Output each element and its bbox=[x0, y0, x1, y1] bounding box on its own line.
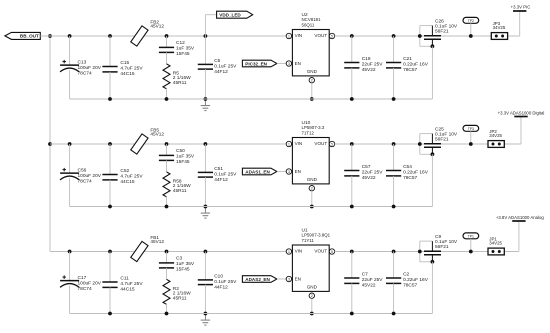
junction row1 C26 wire tap bbox=[418, 34, 422, 38]
resistor R2 bbox=[163, 279, 170, 313]
capacitor C18 bbox=[344, 36, 359, 99]
C13 value label bbox=[78, 60, 102, 77]
wire row2 ground rail bbox=[70, 206, 433, 208]
svg-text:4.7uF 25V: 4.7uF 25V bbox=[120, 65, 143, 71]
svg-text:C17: C17 bbox=[78, 275, 87, 281]
svg-text:VDD_LED: VDD_LED bbox=[219, 13, 241, 18]
junction rail C21 bbox=[392, 97, 396, 101]
U1 reference label bbox=[302, 228, 331, 243]
svg-text:C54: C54 bbox=[403, 164, 412, 170]
svg-text:45V22: 45V22 bbox=[362, 175, 376, 181]
junction rail C2 bbox=[392, 312, 396, 316]
power symbol +3.3V ADAS1000 Digital bbox=[514, 117, 527, 145]
resistor R58 bbox=[163, 172, 170, 207]
svg-text:C18: C18 bbox=[362, 56, 371, 62]
svg-text:1: 1 bbox=[288, 142, 290, 146]
svg-text:TP1: TP1 bbox=[468, 234, 474, 238]
ferrite bead FB2 bbox=[131, 26, 148, 46]
C5 value label bbox=[214, 58, 237, 75]
wire BB_OUT feed vertical bbox=[49, 36, 51, 252]
C57 value label bbox=[362, 164, 384, 181]
wire ADAS1_EN to EN pin bbox=[277, 171, 286, 173]
svg-text:TP3: TP3 bbox=[468, 127, 474, 131]
test point TP1 bbox=[463, 233, 479, 252]
capacitor C56 bbox=[60, 144, 79, 207]
capacitor C51 bbox=[198, 144, 213, 207]
U1 pin 1 VIN bbox=[286, 249, 291, 254]
svg-text:C12: C12 bbox=[176, 40, 185, 46]
svg-text:C50: C50 bbox=[176, 148, 185, 154]
U10 pin 3 EN bbox=[286, 169, 291, 174]
svg-text:TP2: TP2 bbox=[468, 19, 474, 23]
C54 value label bbox=[403, 164, 429, 181]
svg-text:1uF 35V: 1uF 35V bbox=[176, 153, 195, 159]
R2 value label bbox=[173, 286, 191, 302]
svg-text:100uF 20V: 100uF 20V bbox=[78, 281, 102, 287]
svg-text:15F45: 15F45 bbox=[176, 51, 190, 57]
wire row1 output net bbox=[335, 35, 520, 37]
svg-text:0.1uF 25V: 0.1uF 25V bbox=[214, 63, 237, 69]
svg-text:56F21: 56F21 bbox=[435, 29, 449, 35]
C7 value label bbox=[362, 272, 384, 289]
C52 value label bbox=[120, 168, 143, 185]
svg-text:45R11: 45R11 bbox=[173, 80, 187, 86]
net flag ADAS2_EN bbox=[242, 276, 277, 283]
svg-text:ADAS1_EN: ADAS1_EN bbox=[245, 169, 270, 174]
svg-text:0.1uF 25V: 0.1uF 25V bbox=[214, 171, 237, 177]
svg-text:VOUT: VOUT bbox=[314, 249, 327, 254]
junction row2 C54 tap bbox=[392, 142, 396, 146]
svg-text:PIC32_EN: PIC32_EN bbox=[245, 61, 267, 66]
svg-text:45V12: 45V12 bbox=[150, 24, 164, 29]
regulator U1 body bbox=[292, 245, 329, 291]
junction U10 GND rail bbox=[310, 205, 314, 209]
svg-text:1uF 35V: 1uF 35V bbox=[176, 45, 195, 51]
capacitor C13 bbox=[60, 36, 79, 99]
FB2 value label bbox=[150, 19, 164, 28]
svg-text:1uF 35V: 1uF 35V bbox=[176, 261, 195, 267]
svg-text:78C57: 78C57 bbox=[403, 175, 417, 181]
junction row2 C56 tap bbox=[68, 142, 72, 146]
capacitor C9 bbox=[420, 241, 441, 262]
power flag VDD_LED bbox=[217, 11, 253, 18]
R5 value label bbox=[173, 70, 191, 86]
C12 value label bbox=[176, 40, 195, 57]
svg-text:C15: C15 bbox=[120, 60, 129, 66]
svg-text:C10: C10 bbox=[214, 274, 223, 280]
C21 value label bbox=[403, 56, 429, 73]
C11 value label bbox=[120, 276, 143, 293]
wire ADAS2_EN to EN pin bbox=[277, 278, 286, 280]
svg-text:4.7uF 25V: 4.7uF 25V bbox=[120, 173, 143, 179]
power flag BB_OUT bbox=[5, 32, 40, 39]
junction row2 ground tap bbox=[204, 205, 208, 209]
C50 value label bbox=[176, 148, 195, 165]
svg-text:56F21: 56F21 bbox=[435, 244, 449, 250]
svg-text:1: 1 bbox=[288, 250, 290, 254]
svg-text:C3: C3 bbox=[176, 256, 182, 262]
JP1 value label bbox=[489, 236, 502, 245]
wire U10 GND to rail bbox=[311, 191, 313, 207]
svg-text:78C74: 78C74 bbox=[78, 286, 92, 292]
+3.3V PIC label bbox=[511, 5, 531, 10]
capacitor C15 bbox=[102, 36, 117, 99]
capacitor C26 bbox=[420, 26, 441, 47]
wire row3 output net bbox=[335, 251, 519, 253]
capacitor C25 bbox=[420, 134, 441, 155]
svg-text:C56: C56 bbox=[78, 168, 87, 174]
junction row3 TP1 tap bbox=[469, 250, 473, 254]
svg-text:45R11: 45R11 bbox=[173, 296, 187, 302]
wire PIC32_EN to EN pin bbox=[277, 63, 286, 65]
junction row1 C15 tap bbox=[108, 34, 112, 38]
svg-text:VOUT: VOUT bbox=[314, 33, 327, 38]
resistor R5 bbox=[163, 64, 170, 99]
jumper JP3 bbox=[491, 33, 507, 40]
svg-text:VOUT: VOUT bbox=[314, 141, 327, 146]
wire VDD_LED stub bbox=[205, 15, 216, 36]
svg-text:100uF 20V: 100uF 20V bbox=[78, 173, 102, 179]
regulator U2 body bbox=[292, 30, 329, 76]
test point TP3 bbox=[463, 125, 479, 144]
capacitor C2 bbox=[386, 252, 401, 314]
junction rail C57 bbox=[350, 205, 354, 209]
capacitor C5 bbox=[198, 36, 213, 99]
svg-text:1: 1 bbox=[288, 34, 290, 38]
U2 pin 2 GND bbox=[309, 78, 314, 83]
svg-text:3: 3 bbox=[288, 170, 290, 174]
junction U2 GND rail bbox=[310, 97, 314, 101]
C10 value label bbox=[214, 274, 237, 291]
C15 value label bbox=[120, 60, 143, 77]
svg-text:+3.3V ADAS1000 Digital: +3.3V ADAS1000 Digital bbox=[498, 111, 545, 116]
junction rail C52 bbox=[108, 205, 112, 209]
svg-text:34V25: 34V25 bbox=[493, 25, 506, 30]
junction row2 C57 tap bbox=[350, 142, 354, 146]
svg-text:45V12: 45V12 bbox=[150, 239, 164, 244]
svg-text:C5: C5 bbox=[214, 58, 220, 64]
svg-text:C7: C7 bbox=[362, 272, 368, 278]
junction row3 C7 tap bbox=[350, 250, 354, 254]
C3 value label bbox=[176, 256, 195, 273]
svg-text:0.22uF 16V: 0.22uF 16V bbox=[403, 170, 429, 176]
U1 pin 2 GND bbox=[309, 293, 314, 298]
svg-text:56F21: 56F21 bbox=[435, 137, 449, 143]
junction rail C54 bbox=[392, 205, 396, 209]
junction row1 TP2 tap bbox=[469, 34, 473, 38]
U10 reference label bbox=[302, 120, 325, 135]
U10 pin 2 GND bbox=[309, 186, 314, 191]
capacitor C12 bbox=[159, 36, 174, 64]
svg-text:ADAS2_EN: ADAS2_EN bbox=[245, 277, 270, 282]
regulator U10 body bbox=[292, 138, 329, 184]
C2 value label bbox=[403, 272, 429, 289]
svg-text:0.1uF 25V: 0.1uF 25V bbox=[214, 279, 237, 285]
junction rail C11 bbox=[108, 312, 112, 316]
svg-text:22uF 25V: 22uF 25V bbox=[362, 62, 384, 68]
U1 pin 5 VOUT bbox=[329, 249, 334, 254]
svg-text:44C15: 44C15 bbox=[120, 179, 134, 185]
svg-text:GND: GND bbox=[307, 69, 318, 74]
svg-text:45V22: 45V22 bbox=[362, 283, 376, 289]
svg-text:EN: EN bbox=[295, 169, 301, 174]
C9 value label bbox=[435, 234, 458, 250]
svg-text:34V25: 34V25 bbox=[489, 133, 502, 138]
wire C9 to ground rail bbox=[431, 262, 433, 314]
junction row1 C12 tap bbox=[165, 34, 169, 38]
svg-text:3: 3 bbox=[288, 277, 290, 281]
svg-text:C57: C57 bbox=[362, 164, 371, 170]
junction row1 ground tap bbox=[204, 97, 208, 101]
svg-text:EN: EN bbox=[295, 277, 301, 282]
U2 pin 3 EN bbox=[286, 61, 291, 66]
wire row1 ground rail bbox=[70, 98, 433, 100]
wire row3 ground rail bbox=[70, 313, 433, 315]
svg-text:EN: EN bbox=[295, 61, 301, 66]
svg-text:45V12: 45V12 bbox=[150, 132, 164, 137]
FB1 value label bbox=[150, 235, 164, 244]
capacitor C50 bbox=[159, 144, 174, 172]
ferrite bead FB1 bbox=[131, 241, 148, 261]
svg-text:VIN: VIN bbox=[295, 141, 303, 146]
ground row3 bbox=[201, 314, 210, 326]
svg-text:44F12: 44F12 bbox=[214, 177, 228, 183]
svg-text:C2: C2 bbox=[403, 272, 409, 278]
svg-text:78C57: 78C57 bbox=[403, 67, 417, 73]
svg-text:C13: C13 bbox=[78, 60, 87, 66]
capacitor C21 bbox=[386, 36, 401, 99]
svg-text:78C74: 78C74 bbox=[78, 70, 92, 76]
capacitor C54 bbox=[386, 144, 401, 207]
FB5 value label bbox=[150, 127, 164, 136]
junction rail C18 bbox=[350, 97, 354, 101]
JP2 value label bbox=[489, 129, 502, 138]
svg-text:2: 2 bbox=[311, 187, 313, 191]
svg-text:C11: C11 bbox=[120, 276, 129, 282]
junction row3 C11 tap bbox=[108, 250, 112, 254]
svg-text:71T12: 71T12 bbox=[302, 130, 315, 135]
svg-text:2: 2 bbox=[311, 294, 313, 298]
C51 value label bbox=[214, 166, 237, 183]
svg-text:45R11: 45R11 bbox=[173, 188, 187, 194]
junction feed row1 bbox=[48, 34, 52, 38]
U10 pin 1 VIN bbox=[286, 141, 291, 146]
C17 value label bbox=[78, 275, 102, 292]
svg-text:5: 5 bbox=[331, 250, 333, 254]
U2 pin 5 VOUT bbox=[329, 33, 334, 38]
+3.3V ADAS1000 Digital label bbox=[498, 111, 545, 116]
junction rail C15 bbox=[108, 97, 112, 101]
svg-text:71Y11: 71Y11 bbox=[302, 238, 315, 243]
svg-text:15F45: 15F45 bbox=[176, 266, 190, 272]
wire C25 to ground rail bbox=[431, 154, 433, 206]
svg-text:VIN: VIN bbox=[295, 33, 303, 38]
junction row3 ground tap bbox=[204, 312, 208, 316]
wire U1 GND to rail bbox=[311, 298, 313, 313]
svg-text:5: 5 bbox=[331, 142, 333, 146]
U2 reference label bbox=[302, 12, 322, 27]
ferrite bead FB5 bbox=[131, 134, 148, 154]
svg-text:+3.3V PIC: +3.3V PIC bbox=[511, 5, 531, 10]
svg-text:GND: GND bbox=[307, 285, 318, 290]
junction row1 C21 tap bbox=[392, 34, 396, 38]
svg-text:45V22: 45V22 bbox=[362, 67, 376, 73]
C25 value label bbox=[435, 127, 458, 143]
junction row2 C52 tap bbox=[108, 142, 112, 146]
junction rail R5 bbox=[165, 97, 169, 101]
junction row2 C25 wire tap bbox=[418, 142, 422, 146]
svg-text:C52: C52 bbox=[120, 168, 129, 174]
junction row3 C9 wire tap bbox=[418, 250, 422, 254]
junction row2 TP3 tap bbox=[469, 142, 473, 146]
junction C9 bottom bbox=[431, 260, 435, 264]
junction row1 C13 tap bbox=[68, 34, 72, 38]
junction row1 C18 tap bbox=[350, 34, 354, 38]
R58 value label bbox=[173, 178, 191, 194]
capacitor C17 bbox=[60, 252, 79, 314]
svg-text:100uF 20V: 100uF 20V bbox=[78, 65, 102, 71]
svg-text:2: 2 bbox=[311, 79, 313, 83]
wire row1 input net bbox=[40, 35, 286, 37]
C56 value label bbox=[78, 168, 102, 185]
+3.8V ADAS1000 Analog label bbox=[496, 215, 545, 220]
svg-text:C21: C21 bbox=[403, 56, 412, 62]
net flag ADAS1_EN bbox=[242, 168, 277, 175]
svg-text:78C74: 78C74 bbox=[78, 178, 92, 184]
U10 pin 5 VOUT bbox=[329, 141, 334, 146]
capacitor C10 bbox=[198, 252, 213, 314]
junction row2 C50 tap bbox=[165, 142, 169, 146]
test point TP2 bbox=[463, 17, 479, 36]
junction rail R2 bbox=[165, 312, 169, 316]
svg-text:22uF 25V: 22uF 25V bbox=[362, 277, 384, 283]
capacitor C11 bbox=[102, 252, 117, 314]
svg-text:56Q11: 56Q11 bbox=[302, 22, 315, 27]
junction rail R58 bbox=[165, 205, 169, 209]
svg-text:4.7uF 25V: 4.7uF 25V bbox=[120, 281, 143, 287]
U1 pin 3 EN bbox=[286, 276, 291, 281]
svg-text:VIN: VIN bbox=[295, 249, 303, 254]
svg-text:+3.8V ADAS1000 Analog: +3.8V ADAS1000 Analog bbox=[496, 215, 545, 220]
svg-text:15F45: 15F45 bbox=[176, 159, 190, 165]
svg-text:44F12: 44F12 bbox=[214, 284, 228, 290]
wire U2 GND to rail bbox=[311, 83, 313, 99]
junction row2 C51 tap bbox=[204, 142, 208, 146]
junction row3 C10 tap bbox=[204, 250, 208, 254]
junction C25 bottom bbox=[431, 152, 435, 156]
capacitor C7 bbox=[344, 252, 359, 314]
junction row3 C17 tap bbox=[68, 250, 72, 254]
junction rail C7 bbox=[350, 312, 354, 316]
svg-text:44F12: 44F12 bbox=[214, 69, 228, 75]
junction C26 bottom bbox=[431, 44, 435, 48]
U2 pin 1 VIN bbox=[286, 33, 291, 38]
svg-text:78C57: 78C57 bbox=[403, 283, 417, 289]
wire row3 input net bbox=[50, 251, 286, 253]
svg-text:0.22uF 16V: 0.22uF 16V bbox=[403, 277, 429, 283]
wire C26 to ground rail bbox=[431, 46, 433, 99]
power symbol +3.3V PIC bbox=[513, 11, 526, 36]
junction feed row2 bbox=[48, 142, 52, 146]
svg-text:5: 5 bbox=[331, 34, 333, 38]
wire row2 input net bbox=[50, 143, 286, 145]
junction row3 C3 tap bbox=[165, 250, 169, 254]
capacitor C57 bbox=[344, 144, 359, 207]
svg-text:0.22uF 16V: 0.22uF 16V bbox=[403, 62, 429, 68]
svg-text:GND: GND bbox=[307, 177, 318, 182]
junction U1 GND rail bbox=[310, 312, 314, 316]
junction row1 C5 tap bbox=[204, 34, 208, 38]
svg-text:44C15: 44C15 bbox=[120, 71, 134, 77]
ground row1 bbox=[201, 99, 210, 111]
svg-text:3: 3 bbox=[288, 62, 290, 66]
jumper JP1 bbox=[488, 248, 504, 255]
ground row2 bbox=[201, 207, 210, 219]
net flag PIC32_EN bbox=[242, 60, 277, 67]
C26 value label bbox=[435, 19, 458, 35]
C18 value label bbox=[362, 56, 384, 73]
svg-text:22uF 25V: 22uF 25V bbox=[362, 170, 384, 176]
junction row3 C2 tap bbox=[392, 250, 396, 254]
capacitor C3 bbox=[159, 252, 174, 280]
JP3 value label bbox=[493, 21, 506, 30]
svg-text:BB_OUT: BB_OUT bbox=[20, 34, 39, 39]
svg-text:34V25: 34V25 bbox=[489, 241, 502, 246]
power symbol +3.8V ADAS1000 Analog bbox=[512, 221, 525, 252]
capacitor C52 bbox=[102, 144, 117, 207]
svg-text:C51: C51 bbox=[214, 166, 223, 172]
wire row2 output net bbox=[335, 143, 521, 145]
jumper JP2 bbox=[488, 141, 504, 148]
svg-text:44C15: 44C15 bbox=[120, 286, 134, 292]
